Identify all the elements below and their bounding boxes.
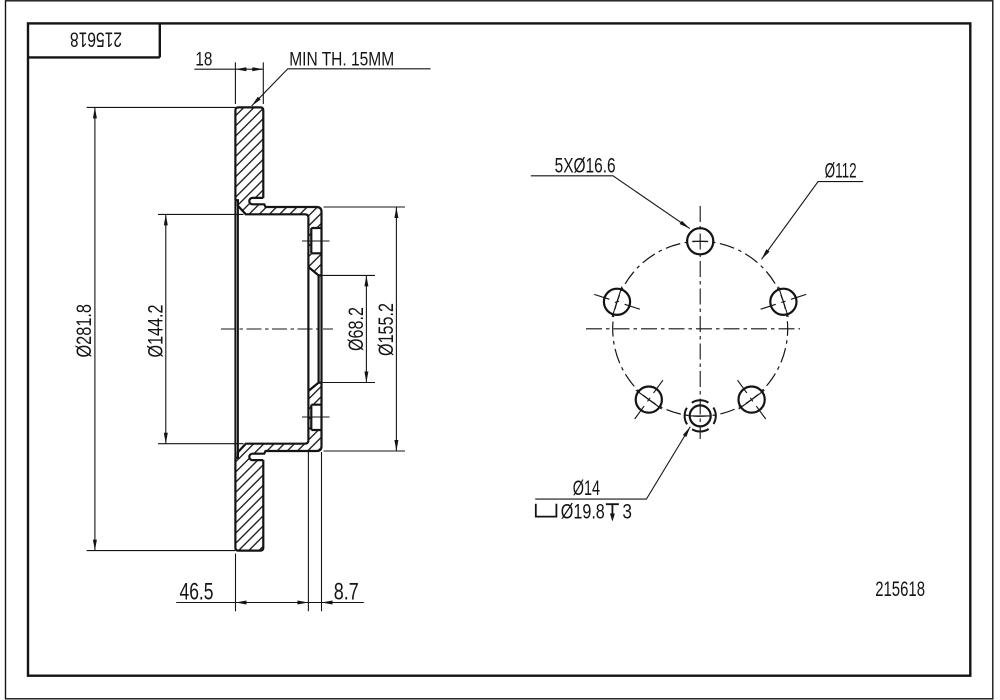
counterbore dia 19.8 dashed circle xyxy=(685,400,716,431)
dimensions 46.5 and 8.7 xyxy=(236,452,322,611)
flange outer face and bore chamfer lower xyxy=(308,383,321,391)
leader 5XØ16.6 xyxy=(531,176,690,229)
bolt pitch circle dia 112 xyxy=(613,241,788,416)
dimension dia 155.2 xyxy=(324,207,406,451)
title block box top-left xyxy=(28,23,160,57)
svg-text:Ø112: Ø112 xyxy=(825,159,857,183)
relief groove and hat top lower xyxy=(249,383,321,461)
svg-text:8.7: 8.7 xyxy=(334,579,359,606)
main vertical centreline xyxy=(699,206,701,439)
friction ring outline lower xyxy=(235,458,263,551)
svg-text:Ø14: Ø14 xyxy=(573,476,600,500)
bolt hole edges in flange lower xyxy=(311,405,321,430)
section centreline xyxy=(221,328,333,330)
relief groove and hat top upper xyxy=(249,198,321,276)
bolt hole top (90deg) xyxy=(687,228,713,254)
main horizontal centreline xyxy=(586,328,800,330)
svg-text:MIN TH. 15MM: MIN TH. 15MM xyxy=(289,49,394,70)
hatch fill lower half section xyxy=(235,383,321,551)
svg-text:215618: 215618 xyxy=(70,27,122,51)
friction ring outline upper xyxy=(235,107,263,200)
svg-text:Ø68.2: Ø68.2 xyxy=(344,307,368,351)
dimension dia 68.2 xyxy=(323,275,376,382)
depth symbol xyxy=(606,504,619,514)
svg-text:Ø19.8: Ø19.8 xyxy=(561,499,605,523)
flange mounting face (continuous through bore) xyxy=(307,218,309,441)
svg-text:5XØ16.6: 5XØ16.6 xyxy=(555,154,616,178)
dimension dia 281.8 xyxy=(87,107,236,550)
counterbore symbol xyxy=(536,504,557,517)
leader dia 112 xyxy=(762,182,864,260)
bolt hole lower-left (234deg) xyxy=(636,387,662,413)
svg-text:Ø155.2: Ø155.2 xyxy=(374,303,398,356)
friction band step silhouette xyxy=(237,200,239,458)
hat inner profile upper xyxy=(235,200,308,218)
svg-text:Ø281.8: Ø281.8 xyxy=(72,304,96,358)
svg-text:46.5: 46.5 xyxy=(180,579,214,606)
bolt hole lower-right (306deg) xyxy=(739,387,765,413)
dimension 18 xyxy=(235,62,263,104)
bolt hole edges in flange upper xyxy=(311,228,321,253)
hatch fill upper half section xyxy=(235,107,321,275)
svg-text:3: 3 xyxy=(622,499,632,523)
dimension dia 144.2 xyxy=(158,214,244,443)
bolt hole axis ticks in section xyxy=(302,241,330,417)
centre bore walls xyxy=(319,275,322,382)
flange outer face and bore chamfer upper xyxy=(308,267,321,275)
svg-text:215618: 215618 xyxy=(875,577,925,601)
svg-text:18: 18 xyxy=(195,49,212,70)
hat inner profile lower xyxy=(235,440,308,458)
leader dia 14 xyxy=(535,427,690,500)
locating pin hole dia 14 bottom xyxy=(690,405,711,426)
svg-text:Ø144.2: Ø144.2 xyxy=(144,305,168,358)
bolt hole left (162deg) xyxy=(604,289,630,315)
bolt hole right (18deg) xyxy=(770,289,796,315)
friction ring inner face silhouette xyxy=(234,200,236,458)
leader MIN TH. 15MM xyxy=(252,69,431,106)
